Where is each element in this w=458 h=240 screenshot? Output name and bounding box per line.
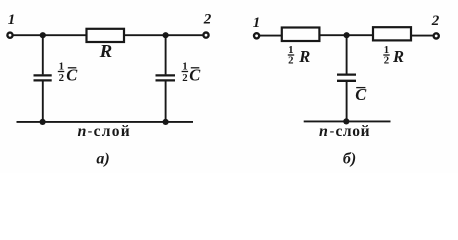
node 1 terminal (circuit b) (254, 33, 259, 38)
svg-text:2: 2 (203, 11, 212, 27)
wire: C to n-layer rail (circuit b) (346, 82, 348, 122)
value label 1/2 C-bar (C2) (182, 61, 201, 85)
capacitor C2 (1/2 C-bar) (156, 75, 176, 80)
svg-text:1: 1 (253, 15, 261, 31)
wire: C2 to n-layer rail (165, 81, 167, 121)
svg-text:R: R (99, 41, 113, 61)
svg-text:2: 2 (384, 55, 389, 67)
junction: C1 to rail (40, 119, 46, 125)
svg-text:слой: слой (94, 123, 131, 140)
node 2 terminal (circuit a) (203, 33, 208, 38)
junction: C2 to rail (163, 119, 169, 125)
n-layer rail (circuit b) (304, 120, 391, 122)
capacitor C1 (1/2 C-bar) (34, 75, 52, 80)
wire: right resistor to terminal 2 (411, 35, 434, 37)
value label 1/2 R (left) (288, 44, 310, 67)
wire: junction down to C1 (42, 35, 44, 74)
junction: top of C2 (163, 32, 169, 38)
label n-слой (circuit a) (78, 123, 131, 140)
svg-text:n: n (78, 123, 87, 140)
svg-text:2: 2 (288, 55, 293, 67)
wire: C1 to n-layer rail (42, 81, 44, 121)
svg-text:-: - (330, 124, 335, 139)
n-layer rail (circuit a) (17, 121, 194, 123)
svg-text:1: 1 (59, 61, 64, 73)
node 2 terminal (circuit b) (434, 33, 439, 38)
svg-text:R: R (298, 47, 310, 66)
node 1 terminal (circuit a) (7, 33, 12, 38)
wire: left resistor to right resistor (319, 34, 373, 36)
junction: top of C (circuit b) (344, 32, 350, 38)
svg-text:2: 2 (59, 72, 64, 84)
label n-слой (circuit b) (319, 123, 370, 140)
resistor R (87, 29, 125, 42)
wire: junction 2 down to C2 (165, 35, 167, 74)
wire: junction down to C (circuit b) (346, 35, 348, 73)
junction: top of C1 (40, 32, 46, 38)
svg-text:слой: слой (335, 123, 370, 140)
svg-text:2: 2 (431, 13, 440, 29)
junction: C to rail (circuit b) (343, 118, 349, 124)
wire: terminal 1 to left resistor (259, 35, 281, 37)
svg-text:2: 2 (182, 72, 187, 84)
capacitor C-bar (337, 75, 356, 81)
svg-text:-: - (88, 124, 93, 139)
wire: terminal 1 to resistor R (13, 34, 86, 36)
svg-text:1: 1 (182, 61, 187, 73)
svg-text:n: n (319, 123, 328, 140)
svg-text:1: 1 (8, 12, 16, 28)
value label 1/2 C-bar (C1) (59, 61, 79, 85)
resistor 1/2 R (right) (373, 27, 411, 40)
svg-text:R: R (392, 47, 404, 66)
value label 1/2 R (right) (384, 44, 404, 67)
svg-text:б): б) (343, 150, 356, 167)
resistor 1/2 R (left) (282, 28, 320, 42)
svg-text:а): а) (96, 150, 109, 167)
wire: resistor R to terminal 2 (124, 34, 203, 36)
